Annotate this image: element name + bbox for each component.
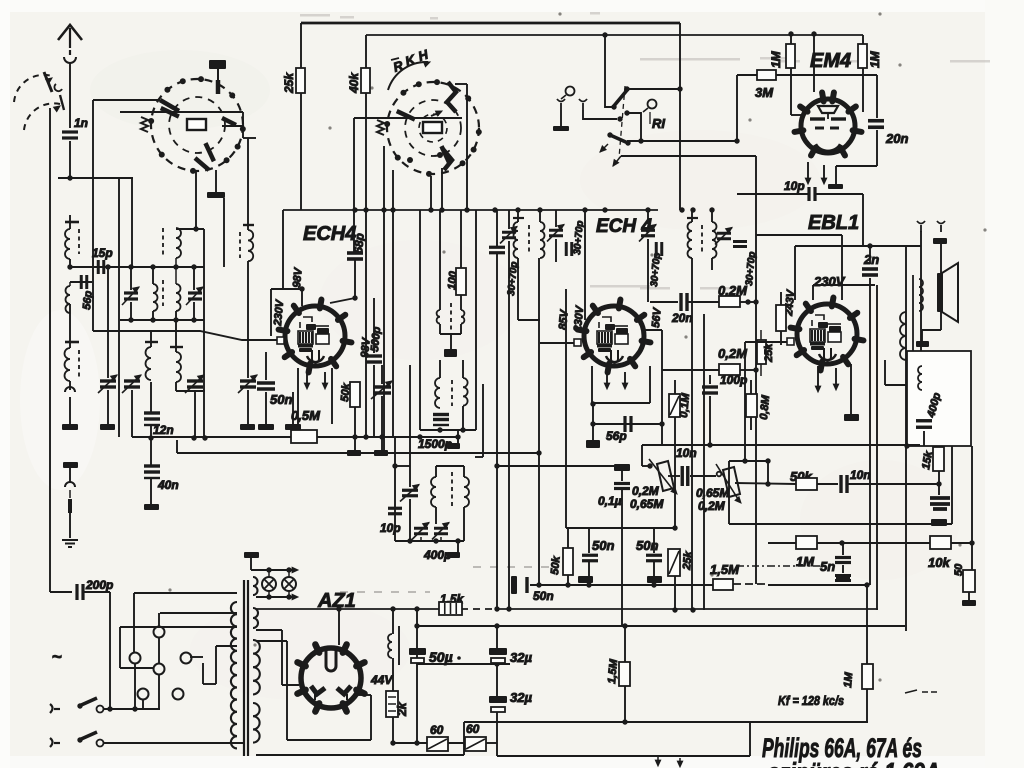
svg-text:200p: 200p (85, 578, 113, 592)
svg-text:~: ~ (52, 647, 62, 666)
svg-text:0,2M: 0,2M (632, 484, 660, 498)
svg-text:0,2M: 0,2M (698, 499, 726, 513)
svg-text:1M: 1M (769, 50, 783, 68)
svg-text:10k: 10k (928, 555, 950, 570)
svg-text:230V: 230V (813, 274, 846, 289)
svg-text:1,5M: 1,5M (710, 562, 740, 577)
svg-text:5n: 5n (820, 559, 835, 574)
svg-text:1,5M: 1,5M (606, 658, 620, 684)
svg-text:56V: 56V (650, 306, 664, 328)
svg-text:0,1M: 0,1M (678, 392, 692, 418)
svg-text:40n: 40n (157, 478, 179, 492)
svg-text:25k: 25k (282, 72, 296, 94)
svg-text:98V: 98V (291, 266, 305, 288)
svg-text:25k: 25k (681, 550, 695, 571)
svg-text:1500p: 1500p (418, 437, 452, 451)
svg-text:20n: 20n (671, 311, 693, 325)
svg-text:0,1µ: 0,1µ (598, 494, 622, 508)
svg-text:60: 60 (430, 723, 444, 737)
svg-text:10n: 10n (676, 446, 697, 460)
svg-text:25k: 25k (763, 343, 775, 363)
svg-text:szinüres rá 1.69A: szinüres rá 1.69A (768, 757, 940, 768)
svg-text:56p: 56p (81, 290, 95, 310)
svg-text:50n: 50n (270, 392, 292, 407)
svg-text:EBL1: EBL1 (808, 212, 859, 234)
svg-text:85V: 85V (557, 308, 571, 330)
svg-text:EM4: EM4 (810, 50, 851, 72)
svg-text:1M: 1M (868, 50, 882, 68)
svg-text:40k: 40k (347, 72, 361, 94)
svg-text:2n: 2n (863, 252, 879, 267)
svg-text:1n: 1n (74, 116, 88, 130)
svg-text:1M: 1M (842, 671, 855, 688)
svg-text:10p: 10p (380, 521, 401, 535)
svg-text:32µ: 32µ (510, 650, 532, 665)
svg-text:10n: 10n (850, 468, 871, 482)
svg-text:0,5M: 0,5M (291, 408, 321, 423)
svg-text:2k: 2k (395, 701, 409, 717)
svg-text:ECH 4: ECH 4 (596, 216, 652, 237)
svg-text:0,65M: 0,65M (630, 497, 664, 511)
svg-text:68p: 68p (351, 232, 367, 254)
svg-text:10p: 10p (784, 179, 805, 193)
svg-text:500p: 500p (369, 326, 383, 352)
svg-text:0,2M: 0,2M (718, 346, 748, 361)
svg-text:100p: 100p (720, 373, 747, 387)
svg-text:0,8M: 0,8M (758, 394, 772, 420)
svg-text:15p: 15p (92, 246, 113, 260)
svg-text:Kf = 128 kc/s: Kf = 128 kc/s (778, 693, 844, 708)
svg-text:3M: 3M (755, 85, 774, 100)
svg-text:50n: 50n (636, 538, 658, 553)
svg-text:44V: 44V (370, 673, 393, 687)
svg-text:50n: 50n (592, 538, 614, 553)
svg-text:60: 60 (466, 722, 480, 736)
svg-text:32µ: 32µ (510, 690, 532, 705)
svg-text:ECH4: ECH4 (303, 223, 356, 245)
svg-text:20n: 20n (885, 131, 908, 146)
svg-text:RI: RI (652, 116, 665, 131)
svg-text:0,65M: 0,65M (696, 486, 730, 500)
svg-text:230V: 230V (272, 298, 286, 327)
svg-text:50µ: 50µ (429, 649, 453, 665)
svg-text:50n: 50n (533, 589, 554, 603)
svg-text:50k: 50k (549, 555, 563, 575)
